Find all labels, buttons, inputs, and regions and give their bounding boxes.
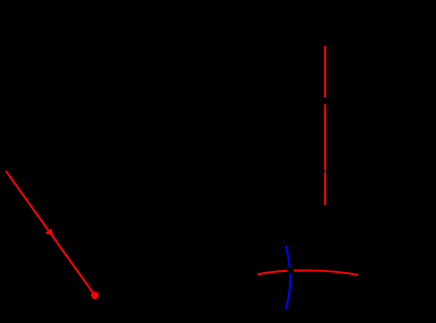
occlusion nick on axis (black overdraw)	[323, 170, 325, 173]
red latitude arc	[258, 270, 359, 275]
arrowhead on red vector (mid-line, pointing down-right)	[45, 228, 53, 235]
wire: red vertical axis line, upper segment	[324, 46, 326, 97]
node P: red endpoint dot of vector	[91, 292, 99, 300]
node Q: black intersection point covering both arcs	[287, 267, 293, 273]
wire: red vertical axis line, lower segment	[324, 104, 326, 205]
blue meridian arc	[286, 246, 290, 309]
wire: red vector shaft from upper-left to point P	[6, 171, 95, 295]
